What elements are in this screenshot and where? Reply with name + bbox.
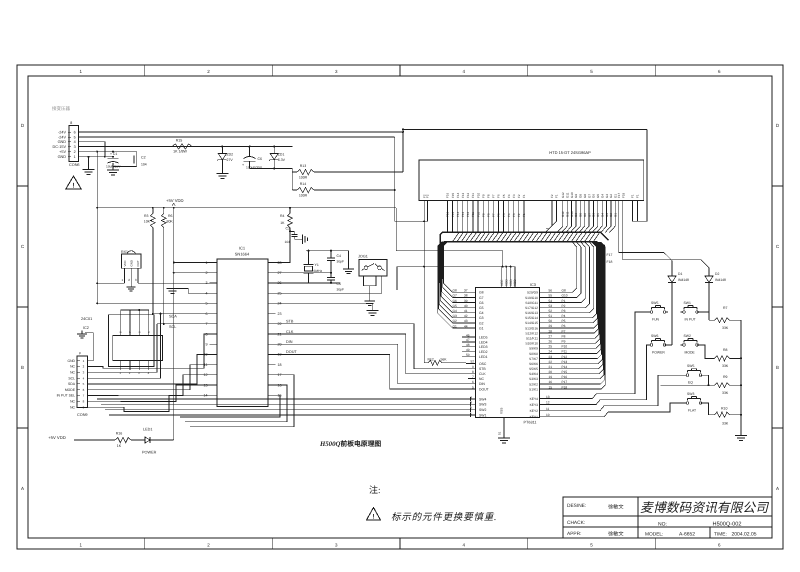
svg-text:SCL: SCL bbox=[169, 325, 176, 329]
svg-text:56K: 56K bbox=[441, 357, 448, 361]
svg-text:F12: F12 bbox=[466, 192, 470, 198]
svg-text:S5/K5: S5/K5 bbox=[529, 367, 538, 371]
svg-text:F1: F1 bbox=[636, 194, 640, 198]
svg-text:+ C1: + C1 bbox=[110, 152, 117, 156]
svg-text:1: 1 bbox=[74, 155, 76, 159]
svg-text:R9: R9 bbox=[723, 375, 728, 379]
svg-text:GND: GND bbox=[130, 260, 134, 266]
svg-text:S2/K2: S2/K2 bbox=[529, 382, 538, 386]
svg-text:接变压器: 接变压器 bbox=[52, 106, 70, 111]
svg-text:S14/G15: S14/G15 bbox=[525, 321, 538, 325]
svg-text:G8: G8 bbox=[583, 194, 587, 198]
svg-text:B: B bbox=[21, 365, 24, 370]
svg-text:G12: G12 bbox=[561, 192, 565, 198]
svg-text:SW2: SW2 bbox=[684, 334, 691, 338]
svg-text:VDD: VDD bbox=[504, 279, 508, 286]
svg-text:G12: G12 bbox=[561, 211, 565, 217]
svg-text:5: 5 bbox=[74, 135, 76, 139]
svg-text:51: 51 bbox=[549, 314, 553, 318]
svg-text:G2: G2 bbox=[453, 319, 457, 323]
svg-text:P11: P11 bbox=[562, 350, 568, 354]
svg-text:GND: GND bbox=[58, 140, 67, 144]
svg-text:A: A bbox=[776, 486, 779, 491]
svg-text:G5: G5 bbox=[479, 306, 484, 310]
svg-text:KEY2: KEY2 bbox=[530, 409, 539, 413]
svg-text:MODE: MODE bbox=[65, 388, 76, 392]
svg-text:F2: F2 bbox=[426, 194, 430, 198]
svg-text:G9: G9 bbox=[574, 213, 578, 217]
svg-text:IC2: IC2 bbox=[83, 326, 89, 330]
svg-text:R6: R6 bbox=[168, 214, 173, 218]
svg-text:F13: F13 bbox=[461, 211, 465, 217]
svg-text:F10: F10 bbox=[476, 211, 480, 217]
svg-text:CLK: CLK bbox=[479, 372, 486, 376]
svg-text:F13: F13 bbox=[461, 192, 465, 198]
svg-text:SCL: SCL bbox=[68, 376, 75, 380]
svg-text:G10: G10 bbox=[562, 294, 568, 298]
svg-text:1: 1 bbox=[470, 411, 472, 415]
svg-text:LED3: LED3 bbox=[479, 345, 488, 349]
svg-text:APPR:: APPR: bbox=[567, 531, 581, 537]
svg-text:SW2: SW2 bbox=[479, 408, 486, 412]
svg-text:IN PUT: IN PUT bbox=[685, 318, 696, 322]
svg-text:SW3: SW3 bbox=[479, 403, 486, 407]
svg-text:S1/K1: S1/K1 bbox=[529, 387, 538, 391]
svg-text:LED1: LED1 bbox=[143, 428, 153, 432]
svg-text:SW3: SW3 bbox=[687, 392, 694, 396]
svg-text:G1: G1 bbox=[614, 213, 618, 217]
svg-text:R14: R14 bbox=[300, 182, 306, 186]
svg-text:2004.02.05: 2004.02.05 bbox=[731, 531, 756, 537]
svg-text:G4: G4 bbox=[600, 213, 604, 217]
svg-text:28: 28 bbox=[549, 329, 553, 333]
svg-text:P12: P12 bbox=[562, 355, 568, 359]
svg-text:9: 9 bbox=[472, 365, 474, 369]
svg-text:S15/G14: S15/G14 bbox=[525, 316, 538, 320]
svg-text:G7: G7 bbox=[587, 194, 591, 198]
svg-text:DESINE:: DESINE: bbox=[567, 503, 586, 509]
svg-text:SW5: SW5 bbox=[687, 364, 694, 368]
svg-text:G3: G3 bbox=[453, 314, 457, 318]
svg-text:注:: 注: bbox=[369, 485, 381, 495]
svg-text:G4: G4 bbox=[479, 311, 484, 315]
svg-text:27V: 27V bbox=[227, 158, 234, 162]
svg-text:24C01: 24C01 bbox=[81, 317, 92, 321]
svg-text:-24V: -24V bbox=[58, 130, 66, 134]
svg-text:P1: P1 bbox=[562, 299, 566, 303]
svg-text:JOG1: JOG1 bbox=[358, 255, 368, 259]
svg-text:G6: G6 bbox=[592, 194, 596, 198]
svg-text:SDA: SDA bbox=[169, 315, 177, 319]
svg-text:49: 49 bbox=[466, 348, 470, 352]
svg-text:G1: G1 bbox=[453, 324, 457, 328]
svg-text:52: 52 bbox=[549, 309, 553, 313]
svg-text:PT6311: PT6311 bbox=[524, 421, 537, 425]
svg-text:!: ! bbox=[372, 513, 374, 520]
svg-text:6MHz: 6MHz bbox=[314, 269, 323, 273]
svg-text:25: 25 bbox=[549, 345, 553, 349]
svg-text:S17/G12: S17/G12 bbox=[525, 306, 538, 310]
svg-text:F4: F4 bbox=[507, 194, 511, 198]
svg-text:F3: F3 bbox=[512, 213, 516, 217]
svg-text:F7: F7 bbox=[492, 194, 496, 198]
svg-text:1K 1/8W: 1K 1/8W bbox=[173, 150, 187, 154]
svg-text:B: B bbox=[776, 365, 779, 370]
svg-text:S9/K9: S9/K9 bbox=[529, 347, 538, 351]
svg-text:P5: P5 bbox=[562, 319, 566, 323]
svg-text:VSS: VSS bbox=[500, 408, 504, 414]
svg-text:F1: F1 bbox=[522, 194, 526, 198]
svg-text:C6: C6 bbox=[258, 157, 263, 161]
svg-text:Y1: Y1 bbox=[315, 263, 319, 267]
svg-text:R13: R13 bbox=[300, 164, 306, 168]
svg-text:ZD2: ZD2 bbox=[227, 153, 234, 157]
svg-text:P10: P10 bbox=[562, 345, 568, 349]
svg-text:F15: F15 bbox=[451, 211, 455, 217]
svg-text:4: 4 bbox=[470, 395, 472, 399]
svg-text:20: 20 bbox=[549, 370, 553, 374]
svg-text:KEY1: KEY1 bbox=[530, 415, 539, 419]
svg-text:1K: 1K bbox=[117, 444, 122, 448]
svg-text:3: 3 bbox=[74, 145, 76, 149]
svg-text:39: 39 bbox=[464, 299, 468, 303]
svg-text:P13: P13 bbox=[562, 360, 568, 364]
svg-text:IN4148: IN4148 bbox=[715, 278, 726, 282]
svg-text:P7: P7 bbox=[562, 329, 566, 333]
svg-text:F16: F16 bbox=[446, 211, 450, 217]
svg-text:IC3: IC3 bbox=[530, 283, 536, 287]
svg-text:G10: G10 bbox=[570, 211, 574, 217]
svg-text:2: 2 bbox=[74, 150, 76, 154]
svg-text:GND: GND bbox=[58, 155, 67, 159]
svg-text:F9: F9 bbox=[481, 213, 485, 217]
svg-text:HTD 15-DT 24SG96AP: HTD 15-DT 24SG96AP bbox=[549, 150, 591, 155]
svg-text:LED2: LED2 bbox=[479, 350, 488, 354]
svg-text:SW6: SW6 bbox=[651, 334, 658, 338]
svg-text:53: 53 bbox=[549, 304, 553, 308]
svg-text:51: 51 bbox=[498, 431, 502, 435]
svg-text:6: 6 bbox=[74, 130, 76, 134]
svg-text:OUT: OUT bbox=[136, 260, 140, 266]
svg-text:D1: D1 bbox=[678, 272, 682, 276]
svg-text:21: 21 bbox=[549, 365, 553, 369]
svg-text:F11: F11 bbox=[471, 193, 475, 198]
svg-text:F5: F5 bbox=[502, 194, 506, 198]
svg-text:徐敏文: 徐敏文 bbox=[608, 504, 624, 511]
svg-text:15: 15 bbox=[549, 385, 553, 389]
svg-text:H500Q前板电原理图: H500Q前板电原理图 bbox=[319, 440, 381, 448]
svg-text:R7: R7 bbox=[723, 306, 728, 310]
svg-text:S6/K6: S6/K6 bbox=[529, 362, 538, 366]
svg-text:104: 104 bbox=[141, 163, 147, 167]
svg-text:DOUT: DOUT bbox=[286, 350, 297, 354]
svg-text:G7: G7 bbox=[587, 213, 591, 217]
svg-text:F1: F1 bbox=[522, 213, 526, 217]
svg-text:C2: C2 bbox=[141, 156, 146, 160]
svg-text:S12/K12: S12/K12 bbox=[525, 331, 538, 335]
svg-text:标示的元件更换要慎重.: 标示的元件更换要慎重. bbox=[391, 511, 497, 523]
svg-text:P16: P16 bbox=[562, 375, 568, 379]
svg-text:F1: F1 bbox=[631, 194, 635, 198]
svg-text:P9: P9 bbox=[562, 340, 566, 344]
svg-text:F15: F15 bbox=[451, 192, 455, 198]
svg-text:F14: F14 bbox=[456, 211, 460, 217]
svg-text:29: 29 bbox=[549, 324, 553, 328]
svg-text:R3: R3 bbox=[144, 214, 149, 218]
svg-text:R12: R12 bbox=[428, 357, 434, 361]
svg-text:G7: G7 bbox=[479, 296, 484, 300]
svg-text:1: 1 bbox=[206, 261, 208, 265]
svg-text:GND: GND bbox=[67, 359, 75, 363]
svg-text:42: 42 bbox=[464, 314, 468, 318]
svg-text:G8: G8 bbox=[479, 291, 484, 295]
svg-text:STB: STB bbox=[479, 367, 486, 371]
svg-text:F4: F4 bbox=[507, 213, 511, 217]
svg-text:TIME:: TIME: bbox=[714, 531, 727, 537]
svg-text:S7/K7: S7/K7 bbox=[529, 357, 538, 361]
svg-text:2: 2 bbox=[206, 271, 208, 275]
svg-text:CLK: CLK bbox=[286, 330, 294, 334]
svg-text:F3: F3 bbox=[512, 194, 516, 198]
svg-text:S16/G13: S16/G13 bbox=[525, 311, 538, 315]
svg-text:1K: 1K bbox=[280, 221, 285, 225]
svg-text:F9: F9 bbox=[481, 194, 485, 198]
svg-text:SW1: SW1 bbox=[684, 301, 691, 305]
svg-text:SW1: SW1 bbox=[479, 413, 486, 417]
svg-text:FLAT: FLAT bbox=[688, 409, 696, 413]
svg-text:104: 104 bbox=[284, 240, 290, 244]
svg-text:H500Q-002: H500Q-002 bbox=[713, 522, 742, 528]
svg-text:G8: G8 bbox=[453, 289, 457, 293]
svg-text:SDA: SDA bbox=[68, 382, 76, 386]
svg-text:G3: G3 bbox=[479, 316, 484, 320]
svg-text:F6: F6 bbox=[497, 194, 501, 198]
svg-text:10K: 10K bbox=[144, 220, 151, 224]
svg-text:S3/K3: S3/K3 bbox=[529, 377, 538, 381]
svg-text:DIN: DIN bbox=[286, 340, 293, 344]
svg-text:G2: G2 bbox=[479, 321, 484, 325]
svg-text:NO:: NO: bbox=[658, 522, 667, 528]
svg-text:50: 50 bbox=[466, 353, 470, 357]
svg-text:R4: R4 bbox=[280, 214, 285, 218]
svg-text:SW5: SW5 bbox=[651, 301, 658, 305]
svg-text:R15: R15 bbox=[176, 139, 183, 143]
svg-text:F18: F18 bbox=[621, 192, 625, 198]
svg-text:CHACK:: CHACK: bbox=[567, 520, 585, 526]
svg-text:VCC: VCC bbox=[123, 260, 127, 266]
svg-text:P17: P17 bbox=[562, 380, 568, 384]
svg-text:+5V: +5V bbox=[59, 150, 66, 154]
svg-text:IC1: IC1 bbox=[239, 246, 246, 251]
svg-text:IN PUT SEL: IN PUT SEL bbox=[57, 394, 76, 398]
svg-text:33K: 33K bbox=[722, 326, 729, 330]
svg-text:F7: F7 bbox=[492, 213, 496, 217]
svg-text:VDD: VDD bbox=[513, 279, 517, 286]
svg-text:F2: F2 bbox=[550, 194, 554, 198]
svg-text:MODEL:: MODEL: bbox=[645, 531, 663, 537]
svg-text:CON6: CON6 bbox=[69, 163, 80, 167]
svg-text:41: 41 bbox=[464, 309, 468, 313]
svg-text:P4: P4 bbox=[562, 314, 566, 318]
svg-text:P2: P2 bbox=[562, 304, 566, 308]
svg-text:A: A bbox=[21, 486, 24, 491]
svg-text:F8: F8 bbox=[487, 194, 491, 198]
svg-text:6: 6 bbox=[472, 380, 474, 384]
svg-text:18: 18 bbox=[278, 363, 282, 367]
svg-text:G4: G4 bbox=[453, 309, 457, 313]
svg-text:G9: G9 bbox=[574, 194, 578, 198]
svg-text:S18/G11: S18/G11 bbox=[525, 301, 538, 305]
svg-text:P6: P6 bbox=[562, 324, 566, 328]
svg-text:27: 27 bbox=[549, 334, 553, 338]
svg-text:R8: R8 bbox=[723, 348, 728, 352]
svg-text:麦博数码资讯有限公司: 麦博数码资讯有限公司 bbox=[640, 501, 769, 515]
svg-text:G3: G3 bbox=[605, 213, 609, 217]
svg-text:NC: NC bbox=[479, 377, 484, 381]
svg-text:FUN: FUN bbox=[652, 318, 660, 322]
svg-text:8: 8 bbox=[70, 121, 72, 125]
svg-text:F18: F18 bbox=[607, 260, 613, 264]
svg-text:54: 54 bbox=[549, 299, 553, 303]
svg-text:LED5: LED5 bbox=[479, 335, 488, 339]
svg-text:26: 26 bbox=[549, 340, 553, 344]
svg-text:50: 50 bbox=[549, 319, 553, 323]
svg-text:LED4: LED4 bbox=[479, 340, 488, 344]
svg-text:S8/K8: S8/K8 bbox=[529, 352, 538, 356]
svg-text:G1: G1 bbox=[479, 326, 484, 330]
svg-text:S20/G9: S20/G9 bbox=[527, 291, 538, 295]
svg-text:G6: G6 bbox=[453, 299, 457, 303]
svg-text:+5V VDD: +5V VDD bbox=[48, 435, 66, 440]
svg-text:G7: G7 bbox=[453, 294, 457, 298]
svg-text:VDD: VDD bbox=[509, 279, 513, 286]
svg-text:F2: F2 bbox=[517, 213, 521, 217]
svg-text:F5: F5 bbox=[502, 213, 506, 217]
svg-text:DIN: DIN bbox=[479, 382, 485, 386]
svg-text:P: P bbox=[79, 352, 81, 356]
svg-text:MODE: MODE bbox=[685, 350, 696, 354]
svg-text:P14: P14 bbox=[562, 365, 568, 369]
svg-text:G6: G6 bbox=[479, 301, 484, 305]
svg-text:IN4148: IN4148 bbox=[678, 278, 689, 282]
svg-text:D2: D2 bbox=[715, 272, 719, 276]
svg-text:LED1: LED1 bbox=[479, 355, 488, 359]
svg-text:G10: G10 bbox=[570, 192, 574, 198]
svg-text:52: 52 bbox=[471, 360, 475, 364]
svg-text:S19/G10: S19/G10 bbox=[525, 296, 538, 300]
svg-text:23: 23 bbox=[549, 355, 553, 359]
svg-text:R10: R10 bbox=[721, 407, 727, 411]
svg-text:F17: F17 bbox=[607, 253, 613, 257]
svg-text:F11: F11 bbox=[471, 212, 475, 217]
svg-text:6.3V: 6.3V bbox=[278, 158, 286, 162]
svg-text:G8: G8 bbox=[562, 289, 566, 293]
svg-text:33K: 33K bbox=[722, 422, 729, 426]
svg-text:G4: G4 bbox=[600, 194, 604, 198]
svg-text:2: 2 bbox=[470, 406, 472, 410]
svg-text:23: 23 bbox=[278, 312, 282, 316]
svg-text:F17: F17 bbox=[617, 192, 621, 198]
svg-text:S11/K11: S11/K11 bbox=[526, 337, 538, 341]
svg-text:F14: F14 bbox=[456, 192, 460, 198]
svg-text:38: 38 bbox=[464, 294, 468, 298]
svg-text:KEY4: KEY4 bbox=[530, 397, 539, 401]
svg-text:STB: STB bbox=[286, 320, 294, 324]
svg-text:56: 56 bbox=[549, 289, 553, 293]
svg-text:F16: F16 bbox=[446, 192, 450, 198]
svg-text:NC: NC bbox=[70, 405, 75, 409]
svg-text:30pF: 30pF bbox=[337, 288, 345, 292]
svg-text:F6: F6 bbox=[497, 213, 501, 217]
svg-text:SN1664: SN1664 bbox=[235, 252, 250, 257]
svg-text:28: 28 bbox=[278, 261, 282, 265]
svg-text:47: 47 bbox=[466, 338, 470, 342]
svg-text:P18: P18 bbox=[562, 385, 568, 389]
svg-text:33K: 33K bbox=[722, 364, 729, 368]
svg-text:NC: NC bbox=[70, 400, 75, 404]
svg-text:ZD1: ZD1 bbox=[278, 153, 285, 157]
svg-text:NC: NC bbox=[70, 365, 75, 369]
svg-text:48: 48 bbox=[466, 343, 470, 347]
svg-text:S13/G16: S13/G16 bbox=[525, 326, 538, 330]
svg-text:22: 22 bbox=[549, 360, 553, 364]
svg-text:+: + bbox=[242, 163, 244, 167]
svg-text:G5: G5 bbox=[453, 304, 457, 308]
svg-text:KEY3: KEY3 bbox=[530, 403, 539, 407]
svg-text:!: ! bbox=[72, 182, 74, 189]
svg-text:R16: R16 bbox=[116, 432, 123, 436]
svg-text:G3: G3 bbox=[605, 194, 609, 198]
svg-text:EQ: EQ bbox=[688, 381, 693, 385]
svg-text:OSC: OSC bbox=[479, 362, 487, 366]
svg-text:A-6652: A-6652 bbox=[679, 531, 695, 537]
svg-text:C4: C4 bbox=[337, 254, 342, 258]
svg-text:DC-15V: DC-15V bbox=[52, 145, 66, 149]
svg-text:VEE: VEE bbox=[500, 280, 504, 286]
svg-text:DOUT: DOUT bbox=[479, 387, 489, 391]
svg-text:8: 8 bbox=[472, 370, 474, 374]
svg-text:S10/K10: S10/K10 bbox=[525, 342, 538, 346]
svg-text:100R: 100R bbox=[299, 194, 308, 198]
svg-text:SW4: SW4 bbox=[479, 397, 486, 401]
svg-text:F1: F1 bbox=[555, 194, 559, 198]
svg-text:44: 44 bbox=[464, 324, 468, 328]
svg-text:F2: F2 bbox=[517, 194, 521, 198]
svg-text:CON9: CON9 bbox=[77, 413, 88, 417]
svg-text:37: 37 bbox=[464, 289, 468, 293]
svg-text:POWER: POWER bbox=[652, 350, 665, 354]
svg-text:G6: G6 bbox=[592, 213, 596, 217]
svg-text:-24V: -24V bbox=[58, 135, 66, 139]
svg-text:G8: G8 bbox=[583, 213, 587, 217]
svg-text:16: 16 bbox=[549, 380, 553, 384]
svg-text:30pF: 30pF bbox=[337, 260, 345, 264]
svg-text:C5: C5 bbox=[337, 282, 342, 286]
svg-text:+5V VDD: +5V VDD bbox=[166, 198, 184, 203]
svg-text:P8: P8 bbox=[562, 334, 566, 338]
svg-text:S4/K4: S4/K4 bbox=[529, 372, 538, 376]
svg-text:4: 4 bbox=[74, 140, 76, 144]
svg-text:F8: F8 bbox=[487, 213, 491, 217]
svg-text:43: 43 bbox=[464, 319, 468, 323]
svg-text:40: 40 bbox=[464, 304, 468, 308]
svg-text:55: 55 bbox=[549, 294, 553, 298]
svg-text:P15: P15 bbox=[562, 370, 568, 374]
svg-text:POWER: POWER bbox=[142, 451, 157, 455]
svg-text:24: 24 bbox=[549, 350, 553, 354]
svg-text:F10: F10 bbox=[476, 192, 480, 198]
svg-text:33K: 33K bbox=[722, 391, 729, 395]
